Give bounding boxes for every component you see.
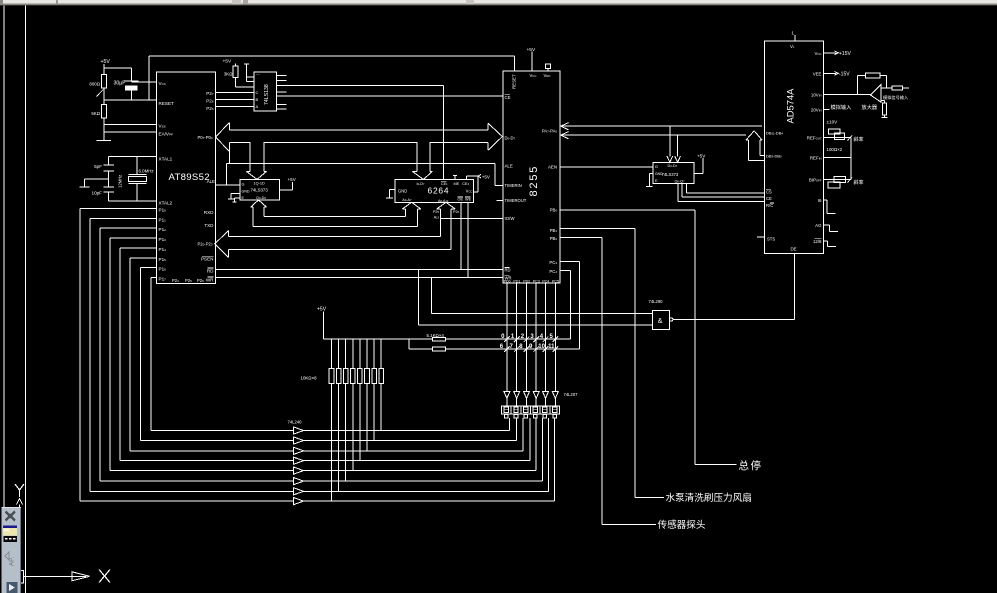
- wire P27 to C: [216, 92, 255, 94]
- svg-text:A13: A13: [434, 215, 440, 219]
- svg-text:CE: CE: [505, 95, 511, 100]
- svg-text:P26: P26: [197, 278, 204, 283]
- svg-text:PC4: PC4: [542, 279, 549, 283]
- bus arrowhead PA line2: [561, 132, 569, 139]
- svg-text:PC3: PC3: [533, 279, 540, 283]
- wire XTAL1: [109, 156, 157, 158]
- arrowhead drop2 U8: [675, 156, 681, 162]
- svg-text:REFOUT: REFOUT: [807, 136, 822, 141]
- resistor RN8 pullup: [380, 339, 382, 368]
- svg-text:XTAL2: XTAL2: [159, 201, 173, 206]
- svg-text:+5V: +5V: [317, 307, 327, 313]
- wire Vcc +15V: [824, 52, 837, 54]
- wire Q to R/C AD574: [677, 184, 679, 202]
- svg-text:11: 11: [548, 344, 555, 350]
- wire reset to 8255 RESET top line: [149, 55, 515, 57]
- wire rail corner: [408, 339, 410, 349]
- svg-text:74LS373: 74LS373: [251, 187, 269, 192]
- latch U4 74LS373 body: [240, 179, 279, 200]
- svg-text:CS: CS: [766, 190, 772, 195]
- bus arrow up into data lines from AD574 low nibble: [746, 131, 754, 140]
- ucs icon X axis: [24, 575, 87, 577]
- svg-text:PD1: PD1: [513, 279, 520, 283]
- svg-text:ALE: ALE: [207, 179, 215, 184]
- svg-text:D0-D7: D0-D7: [668, 164, 678, 168]
- wire PB2 to sensor: [560, 237, 602, 239]
- bus arrow into 8255 D0-D7: [488, 123, 502, 150]
- bus arrow into AT89S52 P0: [216, 123, 230, 152]
- svg-text:水泵清洗刷压力风扇: 水泵清洗刷压力风扇: [666, 492, 752, 504]
- ucs icon origin box: [12, 571, 24, 584]
- arrowhead drop1 U8: [667, 156, 673, 162]
- svg-text:+5V: +5V: [482, 174, 491, 179]
- svg-text:P07-P00: P07-P00: [198, 135, 213, 140]
- svg-text:VCC: VCC: [815, 51, 822, 56]
- ground bracket U8: [649, 173, 653, 175]
- svg-text:PC4: PC4: [549, 269, 557, 274]
- wire DE to gate output: [794, 253, 796, 319]
- drawing border line left inner: [25, 6, 27, 593]
- wire RD to gate: [417, 270, 419, 326]
- svg-text:74L207: 74L207: [564, 392, 579, 397]
- bus shaft bottom segments: [230, 141, 251, 143]
- wire PB0 to zong ting: [560, 209, 695, 211]
- wire Vcc pin to cap top: [131, 81, 156, 83]
- hook D6: [824, 199, 827, 201]
- latch U8 74LS373 body: [653, 162, 694, 183]
- svg-text:斜率: 斜率: [854, 179, 864, 186]
- resistor RN1 pullup: [331, 339, 333, 368]
- stub 20Vin: [824, 109, 830, 111]
- svg-text:P11: P11: [159, 217, 167, 222]
- wire bus wing jog to ALE net: [229, 152, 231, 164]
- svg-text:5KΩ: 5KΩ: [91, 111, 100, 116]
- svg-text:AT89S52: AT89S52: [169, 172, 210, 183]
- svg-text:74LS138: 74LS138: [264, 84, 270, 105]
- svg-text:±10V: ±10V: [827, 120, 839, 125]
- svg-text:RESET: RESET: [159, 101, 175, 106]
- wiper RP1: [848, 136, 853, 141]
- svg-text:10pF: 10pF: [92, 191, 103, 196]
- connector strip body: [502, 406, 560, 414]
- svg-text:GND: GND: [242, 189, 250, 193]
- hook AG: [824, 224, 830, 226]
- wire VEE -15V: [824, 72, 837, 74]
- wire pullup line2: [409, 348, 580, 350]
- svg-text:5pF: 5pF: [94, 164, 102, 169]
- svg-text:12/8: 12/8: [813, 239, 822, 244]
- stub STS: [757, 236, 764, 238]
- svg-text:PD2: PD2: [523, 279, 530, 283]
- wire reset node to RESET pin: [104, 99, 157, 101]
- svg-text:30μF: 30μF: [114, 80, 126, 86]
- wire WE to WR: [467, 202, 469, 277]
- svg-text:WE: WE: [465, 198, 472, 202]
- resistor RN7 pullup: [373, 339, 375, 368]
- ucs icon X arrowhead: [72, 572, 90, 581]
- svg-text:D0-D7: D0-D7: [505, 136, 516, 141]
- wire REFout: [824, 136, 852, 138]
- svg-text:8255: 8255: [528, 165, 540, 197]
- svg-text:CE2: CE2: [462, 182, 469, 186]
- resistor RN6 pullup: [366, 339, 368, 368]
- wire address bus A0-A7 line2: [253, 225, 418, 227]
- wire ALE net to TIMERIN: [494, 163, 496, 185]
- svg-text:10KΩ×8: 10KΩ×8: [301, 376, 318, 381]
- buffers 74LS240 triangles: [294, 427, 304, 434]
- wire PA bus line1: [560, 125, 762, 127]
- resistor R7 input: [892, 86, 903, 90]
- bus arrow wings: [229, 123, 231, 130]
- wire gate output: [673, 319, 795, 321]
- pot RP2: [834, 177, 845, 183]
- wire BIPoff: [824, 178, 852, 180]
- svg-text:GND: GND: [398, 189, 407, 194]
- wire G2B stub: [247, 80, 255, 82]
- svg-text:P17: P17: [159, 276, 167, 281]
- connector cell glyphs: [504, 407, 508, 412]
- svg-text:PB0: PB0: [550, 207, 558, 212]
- svg-text:PC5: PC5: [552, 279, 559, 283]
- svg-text:P26: P26: [453, 210, 460, 214]
- mcu U1 AT89S52 body: [157, 72, 216, 283]
- bus arrow into 6264 A8-A12: [437, 202, 446, 209]
- wire PA bus line2: [560, 134, 746, 136]
- wire buffer lines: [151, 430, 509, 432]
- hook 12/8: [824, 240, 828, 242]
- resistor R2 5Kohm: [101, 105, 106, 118]
- ucs icon X label: [99, 570, 110, 583]
- svg-text:20VIN: 20VIN: [811, 108, 822, 113]
- svg-text:PD0: PD0: [504, 279, 511, 283]
- svg-text:IO/W: IO/W: [505, 216, 516, 221]
- svg-text:G: G: [655, 165, 658, 169]
- svg-text:74L290: 74L290: [649, 299, 664, 304]
- wiper RP2: [848, 178, 853, 183]
- wire risers to strip: [508, 418, 510, 430]
- resistor R6 feedback: [865, 73, 880, 78]
- svg-text:+5V: +5V: [101, 59, 111, 65]
- svg-text:模拟信号输入: 模拟信号输入: [883, 94, 909, 101]
- bus P2 shaft top: [229, 236, 441, 238]
- toolbar icon surface: [3, 526, 17, 529]
- resistor R3 3Kohm: [233, 66, 238, 78]
- toolbar strip top: [0, 0, 997, 3]
- svg-text:放大器: 放大器: [862, 103, 878, 111]
- svg-text:AEN: AEN: [548, 164, 557, 169]
- bus branch arrow into 74LS373 U4: [249, 142, 251, 171]
- wire WR line: [216, 277, 503, 279]
- resistor RN3 pullup: [345, 339, 347, 368]
- svg-text:ˉˉˉˉ: ˉˉˉˉ: [256, 74, 260, 78]
- wire ALE to G U4: [216, 184, 241, 186]
- wire analog in: [903, 87, 910, 89]
- wire Y0 to 6264 CE1: [276, 84, 443, 86]
- svg-text:P10: P10: [159, 208, 167, 213]
- wire R2 to ground: [103, 118, 105, 141]
- svg-text:PA7-PA0: PA7-PA0: [542, 128, 558, 133]
- sram U5 6264 body: [395, 179, 474, 202]
- svg-text:1Q-1D: 1Q-1D: [254, 182, 265, 186]
- svg-text:PC3: PC3: [549, 260, 557, 265]
- svg-text:100Ω×2: 100Ω×2: [827, 147, 843, 152]
- stub Vdd 8255: [547, 69, 549, 71]
- ppi U2 8255 body: [503, 71, 560, 283]
- svg-text:RXD: RXD: [204, 210, 214, 215]
- svg-text:VCC: VCC: [159, 81, 167, 86]
- ground opamp: [884, 115, 886, 118]
- svg-text:P15: P15: [159, 257, 167, 262]
- svg-text:&: &: [658, 318, 663, 325]
- svg-text:+5V: +5V: [527, 47, 536, 53]
- svg-text:R/C: R/C: [766, 203, 773, 208]
- svg-text:VCC: VCC: [466, 189, 473, 194]
- svg-text:PSEN: PSEN: [201, 257, 214, 262]
- wire +5V node: [104, 67, 131, 69]
- wire RD line: [216, 269, 503, 271]
- wire R3 to G1: [235, 77, 237, 86]
- adc U6 AD574A body: [765, 41, 824, 253]
- svg-text:OE: OE: [458, 198, 464, 202]
- svg-text:P16: P16: [159, 267, 167, 272]
- svg-text:TIMERIN: TIMERIN: [505, 183, 522, 188]
- resistor RN4 pullup: [352, 339, 354, 368]
- toolbar icon black box: [4, 536, 18, 542]
- svg-text:-15V: -15V: [839, 72, 850, 78]
- resistor R8 to ground: [883, 103, 887, 115]
- wire Y stubs U3: [276, 74, 286, 76]
- svg-text:AD574A: AD574A: [785, 88, 796, 124]
- wire PC3 drop: [560, 261, 579, 263]
- svg-text:STS: STS: [767, 236, 775, 241]
- power +5V 6264: [465, 176, 467, 179]
- gate output bubble: [670, 318, 673, 321]
- opamp U7: [870, 84, 881, 102]
- wire P1 nested bus: [80, 208, 157, 210]
- toolbar panel bottom left: [2, 507, 22, 593]
- svg-text:RD: RD: [505, 267, 511, 272]
- wire P25 to A: [216, 106, 255, 108]
- svg-text:6264: 6264: [428, 185, 450, 195]
- svg-text:P14: P14: [159, 247, 167, 252]
- svg-text:C: C: [256, 90, 259, 95]
- ground hook E U4: [235, 197, 241, 199]
- wire Q to CE AD574: [681, 184, 683, 197]
- wire IO/W: [441, 217, 503, 219]
- bus arrow into AT89S52 P2: [215, 231, 229, 258]
- svg-text:G: G: [242, 182, 245, 186]
- svg-text:VDD: VDD: [544, 73, 551, 78]
- svg-text:74LS373: 74LS373: [662, 172, 679, 177]
- svg-text:10VIN: 10VIN: [811, 92, 822, 97]
- bus P2 shaft bottom: [229, 249, 452, 251]
- svg-text:CE1: CE1: [441, 182, 448, 186]
- wire bus drop1 U8: [669, 126, 671, 156]
- ground crystal: [80, 186, 90, 188]
- wire noninverting input: [881, 100, 885, 102]
- wire 8255 port drops: [506, 283, 508, 391]
- wire P26 to B: [216, 99, 255, 101]
- wire address bus A0-A7 line1: [264, 216, 405, 218]
- ground reset: [97, 140, 112, 142]
- capacitor C2 5pF: [103, 164, 114, 166]
- wire pot link: [850, 137, 852, 179]
- wire AEN to G U8: [560, 166, 653, 168]
- svg-text:1: 1: [791, 31, 794, 37]
- wire Y1 to 8255 CE: [276, 95, 502, 97]
- svg-text:总停: 总停: [739, 459, 763, 472]
- wire Vss tap: [104, 124, 157, 126]
- resistor R1 800ohm: [101, 75, 106, 88]
- svg-text:TXD: TXD: [204, 223, 214, 228]
- connector lower hooks: [505, 415, 509, 418]
- wire REFin: [824, 157, 852, 159]
- wire crystal ground: [84, 178, 108, 180]
- svg-text:74L240: 74L240: [288, 420, 303, 425]
- svg-text:PB1: PB1: [550, 228, 558, 233]
- ucs icon Y label: [15, 484, 24, 497]
- svg-text:RD: RD: [207, 268, 214, 273]
- svg-text:TIMEROUT: TIMEROUT: [505, 198, 527, 203]
- svg-text:P25: P25: [185, 278, 192, 283]
- capacitor C1 30uF: [130, 68, 132, 81]
- svg-text:斜率: 斜率: [854, 136, 864, 143]
- svg-text:I6: I6: [818, 198, 822, 203]
- svg-text:VEE: VEE: [813, 72, 822, 77]
- wire WR to gate: [430, 278, 432, 314]
- toolbar icon pan: [6, 512, 16, 521]
- svg-text:AP.: AP.: [9, 557, 16, 566]
- ucs icon Y arrowhead: [17, 499, 23, 505]
- svg-text:Q0-Q7: Q0-Q7: [675, 179, 686, 183]
- ground hook 6264: [389, 188, 395, 190]
- svg-text:传感器探头: 传感器探头: [658, 519, 706, 531]
- svg-text:P20-P23: P20-P23: [198, 242, 213, 247]
- svg-text:REFIN: REFIN: [810, 156, 822, 161]
- crystal Y1: [136, 157, 138, 175]
- svg-text:P26: P26: [206, 99, 214, 104]
- wiper arrow R1: [97, 90, 104, 97]
- stub TIMEROUT: [497, 200, 503, 202]
- wire 10Vin to opamp out: [824, 94, 871, 96]
- resistor RN5 pullup: [359, 339, 361, 368]
- svg-text:+5V: +5V: [223, 59, 232, 65]
- pot RP1: [829, 129, 841, 134]
- svg-text:XTAL1: XTAL1: [159, 157, 173, 162]
- ground hook GND U4: [231, 193, 240, 195]
- svg-text:ALE: ALE: [505, 164, 513, 169]
- decoder U3 74LS138 body: [254, 72, 276, 111]
- bus arrow into 6264 A0-A7: [402, 202, 411, 209]
- svg-text:RESET: RESET: [512, 74, 517, 89]
- bus P2 arrow wings: [228, 231, 230, 237]
- svg-text:800Ω: 800Ω: [89, 81, 100, 86]
- bus shaft top: [230, 129, 489, 131]
- svg-text:B: B: [256, 97, 259, 102]
- svg-text:AG: AG: [815, 223, 822, 228]
- svg-text:VCC: VCC: [530, 73, 537, 78]
- wire feedback up: [857, 75, 859, 94]
- svg-text:WR: WR: [206, 277, 214, 282]
- svg-text:P13: P13: [159, 237, 167, 242]
- svg-text:10: 10: [538, 344, 545, 350]
- svg-text:6.0MHz: 6.0MHz: [139, 169, 154, 174]
- svg-text:GND: GND: [655, 172, 663, 176]
- inverter triangles 74LS07: [504, 392, 510, 399]
- resistor RN2 pullup: [338, 339, 340, 368]
- svg-text:3KΩ: 3KΩ: [224, 71, 233, 76]
- svg-text:ME: ME: [454, 182, 460, 186]
- bus arrow out bottom U4: [251, 200, 259, 207]
- wire caps branch: [108, 157, 110, 165]
- wire G2A stub: [247, 76, 255, 78]
- wire pullup line1: [323, 338, 570, 340]
- svg-text:Q0-D0: Q0-D0: [256, 196, 266, 200]
- stub 6264 ME top: [454, 176, 456, 180]
- bus arrowhead PA line1: [561, 123, 569, 130]
- svg-text:P12: P12: [159, 227, 167, 232]
- wire PC4 drop: [560, 270, 570, 272]
- svg-text:+15V: +15V: [839, 51, 851, 57]
- capacitor C3 10pF: [103, 186, 114, 188]
- svg-text:模拟输入: 模拟输入: [831, 103, 852, 111]
- svg-text:VL: VL: [790, 44, 795, 49]
- gate U9 74LS30 body: [653, 310, 670, 329]
- bus branch arrow into 6264: [416, 142, 418, 171]
- svg-text:BIPOFF: BIPOFF: [809, 178, 822, 183]
- wire inverting input: [881, 87, 892, 89]
- wire XTAL2: [109, 200, 157, 202]
- wire feedback right: [880, 74, 886, 76]
- resistor R10 5.1K line2: [432, 347, 445, 351]
- tie bar G2: [244, 63, 249, 65]
- svg-text:12MHz: 12MHz: [118, 175, 123, 188]
- svg-text:A: A: [256, 104, 259, 109]
- pin 1 stub: [794, 35, 796, 41]
- svg-text:+5V: +5V: [288, 177, 297, 182]
- resistor R9 5.1K line1: [432, 337, 445, 341]
- wire EA tap: [104, 131, 157, 133]
- svg-text:P27: P27: [206, 91, 214, 96]
- svg-text:A8-A12: A8-A12: [438, 199, 449, 203]
- svg-text:P25: P25: [206, 106, 214, 111]
- wire R1 to node: [103, 88, 105, 105]
- wire PB1 to pump: [560, 228, 635, 230]
- svg-text:PB2: PB2: [550, 236, 558, 241]
- drawing border line left outer: [3, 6, 5, 509]
- svg-text:CE: CE: [766, 196, 772, 201]
- power +5V U4: [279, 189, 292, 191]
- svg-text:DE: DE: [791, 247, 797, 252]
- toolbar icon play: [7, 582, 18, 593]
- svg-text:VSS: VSS: [159, 124, 166, 129]
- svg-text:P24: P24: [172, 278, 179, 283]
- svg-text:+5V: +5V: [697, 153, 706, 158]
- junction slashes row2: [504, 346, 510, 352]
- wire OE to RD: [460, 202, 462, 269]
- wire bus drop2 U8: [677, 135, 679, 156]
- svg-text:P25: P25: [433, 210, 440, 214]
- wire Q to CS AD574: [686, 184, 688, 194]
- svg-text:DB11-DB4: DB11-DB4: [766, 130, 783, 135]
- svg-text:EA/VPP: EA/VPP: [159, 131, 173, 136]
- svg-text:A0-A7: A0-A7: [402, 198, 412, 202]
- junction slashes row1: [504, 336, 510, 342]
- svg-text:DB3-DB0: DB3-DB0: [766, 153, 782, 158]
- svg-text:I0-D7: I0-D7: [417, 182, 426, 186]
